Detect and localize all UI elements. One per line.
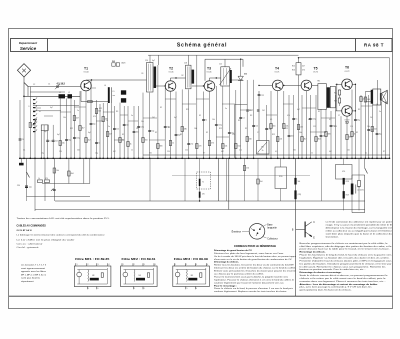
svg-text:5n: 5n xyxy=(131,115,133,117)
svg-text:2k2: 2k2 xyxy=(88,140,91,142)
svg-text:au châssis par le panneau arri: au châssis par le panneau arrière du cof… xyxy=(214,273,264,276)
svg-text:10k: 10k xyxy=(367,126,370,128)
svg-text:Schéma général: Schéma général xyxy=(177,43,227,49)
svg-text:5k6: 5k6 xyxy=(77,150,80,152)
svg-text:MF 1, MF 2, et MF 3. Ils ne: MF 1, MF 2, et MF 3. Ils ne xyxy=(21,273,47,276)
svg-text:C30: C30 xyxy=(17,185,20,187)
svg-text:5n: 5n xyxy=(379,111,381,113)
svg-text:10k: 10k xyxy=(63,117,66,119)
svg-text:5n: 5n xyxy=(136,128,138,130)
svg-text:OC45: OC45 xyxy=(207,72,212,74)
svg-text:680: 680 xyxy=(160,146,163,148)
svg-text:2k2: 2k2 xyxy=(32,125,35,127)
svg-text:5n: 5n xyxy=(33,103,35,105)
svg-text:C21: C21 xyxy=(219,64,222,66)
svg-text:Les transistors T 1, T 2, T 3: Les transistors T 1, T 2, T 3 xyxy=(21,264,47,267)
svg-text:4k7: 4k7 xyxy=(329,151,332,153)
svg-text:S2: S2 xyxy=(181,75,183,77)
svg-text:3k3: 3k3 xyxy=(318,139,321,141)
svg-text:l'opérateur. Pousser le châssi: l'opérateur. Pousser le châssis d'enviro… xyxy=(214,278,295,281)
svg-text:Service: Service xyxy=(20,46,37,51)
svg-text:C7: C7 xyxy=(338,115,340,117)
svg-text:C22: C22 xyxy=(261,95,264,97)
svg-text:0,1: 0,1 xyxy=(365,152,367,154)
svg-text:plus, avec faire passage la co: plus, avec faire passage la commande p. … xyxy=(300,286,372,289)
svg-text:Remontage du châssis.: Remontage du châssis. xyxy=(300,251,326,254)
svg-text:rouge. Il n'y a aucun inconvén: rouge. Il n'y a aucun inconvénient possi… xyxy=(326,223,393,226)
svg-text:soulever légèrement. Replacer: soulever légèrement. Replacer ensuite le… xyxy=(214,290,287,293)
svg-text:sont rigoureusement: sont rigoureusement xyxy=(21,267,45,270)
svg-text:5k6: 5k6 xyxy=(347,150,350,152)
svg-text:Toutes les commutations H.F. o: Toutes les commutations H.F. ont été rep… xyxy=(17,217,111,220)
svg-text:10n: 10n xyxy=(136,132,139,134)
svg-text:Présenter d'abord le haut du c: Présenter d'abord le haut du châssis (to… xyxy=(300,259,392,262)
svg-text:C0: C0 xyxy=(22,139,24,141)
svg-text:125p: 125p xyxy=(76,138,80,140)
svg-text:côté libre supérieur, afin de: côté libre supérieur, afin de dégager de… xyxy=(300,245,393,248)
svg-text:4k7: 4k7 xyxy=(304,139,307,141)
svg-text:4k7: 4k7 xyxy=(109,134,112,136)
svg-text:R12: R12 xyxy=(70,128,73,130)
svg-text:R3: R3 xyxy=(238,120,240,122)
svg-text:1: 1 xyxy=(123,264,124,266)
svg-text:S1: S1 xyxy=(141,73,143,75)
svg-text:Enlever avec précaution les 3: Enlever avec précaution les 3 touches du… xyxy=(214,270,296,273)
svg-text:1n: 1n xyxy=(106,120,108,122)
svg-text:R12: R12 xyxy=(285,128,288,130)
svg-text:22k: 22k xyxy=(62,143,65,145)
svg-text:10µ: 10µ xyxy=(41,152,44,154)
svg-text:Pour le remontage :: Pour le remontage : xyxy=(214,284,237,287)
svg-text:82: 82 xyxy=(122,134,124,136)
svg-text:le côté avant. Remonter le châ: le côté avant. Remonter le châssis sous … xyxy=(300,265,386,268)
svg-text:R3: R3 xyxy=(245,128,247,130)
svg-text:4,5-19,5: 4,5-19,5 xyxy=(57,82,66,85)
svg-text:L2: L2 xyxy=(68,92,70,94)
svg-text:25µ: 25µ xyxy=(268,129,271,131)
svg-text:OA70: OA70 xyxy=(121,62,125,65)
svg-text:10k: 10k xyxy=(56,170,59,172)
svg-text:C18: C18 xyxy=(184,63,187,65)
svg-text:150: 150 xyxy=(145,140,148,142)
svg-text:MF: MF xyxy=(191,275,193,277)
svg-text:T2: T2 xyxy=(169,66,173,70)
svg-text:4k7: 4k7 xyxy=(221,151,224,153)
svg-text:appariés avec les filtres: appariés avec les filtres xyxy=(21,270,46,273)
svg-text:3: 3 xyxy=(98,264,99,266)
svg-text:4: 4 xyxy=(155,264,156,266)
svg-text:10n: 10n xyxy=(126,125,129,127)
svg-text:Basculer progressivement le ch: Basculer progressivement le châssis en m… xyxy=(300,242,389,245)
svg-text:d'une main sur la vis de fixat: d'une main sur la vis de fixation du gra… xyxy=(214,258,292,261)
svg-text:40µ: 40µ xyxy=(357,120,360,122)
svg-text:82: 82 xyxy=(199,115,201,117)
svg-text:Le bobinage Ox (vert) entouran: Le bobinage Ox (vert) entourant des coul… xyxy=(17,234,105,237)
svg-text:C15: C15 xyxy=(350,126,353,128)
svg-text:0,1: 0,1 xyxy=(23,150,25,152)
svg-text:1k: 1k xyxy=(38,178,40,180)
svg-text:4k7: 4k7 xyxy=(113,151,116,153)
svg-text:Démontage du clavier et remont: Démontage du clavier et remontage. xyxy=(300,271,342,274)
svg-text:4p7: 4p7 xyxy=(50,107,53,109)
svg-text:L5: L5 xyxy=(113,91,115,93)
svg-text:Poser le châssis sur le fond,: Poser le châssis sur le fond, le pousser… xyxy=(214,288,293,290)
svg-text:470: 470 xyxy=(45,178,48,180)
svg-text:2: 2 xyxy=(88,264,89,266)
svg-text:C12: C12 xyxy=(185,150,188,152)
svg-text:1: 1 xyxy=(77,264,78,266)
svg-text:50p: 50p xyxy=(151,131,154,133)
svg-text:5n: 5n xyxy=(205,120,207,122)
svg-text:82: 82 xyxy=(356,132,358,134)
svg-text:OC44: OC44 xyxy=(84,72,89,74)
svg-text:R7: R7 xyxy=(383,151,385,153)
svg-text:T4: T4 xyxy=(275,66,279,70)
svg-text:Le fil de connexion du collect: Le fil de connexion du collecteur est re… xyxy=(326,220,393,223)
svg-text:les pattes de fixation. Introd: les pattes de fixation. Introduire progr… xyxy=(300,262,392,265)
svg-text:0,1: 0,1 xyxy=(270,119,272,121)
svg-text:R3: R3 xyxy=(116,111,118,113)
svg-text:5: 5 xyxy=(187,288,188,290)
svg-text:220: 220 xyxy=(167,151,170,153)
svg-text:5n: 5n xyxy=(108,126,110,128)
svg-text:2k2: 2k2 xyxy=(370,117,373,119)
svg-text:C7: C7 xyxy=(257,132,259,134)
svg-text:remonter dans son logement. Pl: remonter dans son logement. Placer à nou… xyxy=(300,280,387,283)
svg-text:4p7: 4p7 xyxy=(174,117,177,119)
svg-text:T5: T5 xyxy=(314,66,318,70)
svg-text:C2: C2 xyxy=(33,84,35,86)
svg-text:10µ: 10µ xyxy=(95,152,98,154)
svg-text:5k6: 5k6 xyxy=(149,152,152,154)
svg-text:5k6: 5k6 xyxy=(249,139,252,141)
svg-text:R16: R16 xyxy=(292,70,295,72)
svg-text:C15: C15 xyxy=(313,126,316,128)
svg-text:5n: 5n xyxy=(225,108,227,110)
svg-text:82: 82 xyxy=(318,111,320,113)
svg-text:470: 470 xyxy=(202,194,205,196)
svg-text:0,1: 0,1 xyxy=(329,119,331,121)
svg-text:6k8: 6k8 xyxy=(71,173,74,175)
svg-text:7k: 7k xyxy=(202,182,204,184)
svg-text:125p: 125p xyxy=(140,127,144,129)
svg-text:Passer le tournevis bien assis: Passer le tournevis bien assis par la bâ… xyxy=(214,275,288,278)
svg-text:poser d'assez haut sur la tabl: poser d'assez haut sur la table pour le … xyxy=(300,248,391,251)
svg-text:4p7: 4p7 xyxy=(88,132,91,134)
svg-text:5n: 5n xyxy=(324,132,326,134)
svg-text:Collecteur: Collecteur xyxy=(267,237,278,240)
svg-text:10k: 10k xyxy=(212,119,215,121)
svg-text:47n: 47n xyxy=(249,110,252,112)
svg-text:680: 680 xyxy=(328,134,331,136)
svg-text:125p: 125p xyxy=(218,125,222,127)
svg-text:150: 150 xyxy=(238,146,241,148)
svg-text:Attention : Lors du démontage: Attention : Lors du démontage et surtout… xyxy=(300,283,378,286)
svg-text:4: 4 xyxy=(207,264,208,266)
svg-text:2: 2 xyxy=(186,264,187,266)
svg-text:L4: L4 xyxy=(104,85,106,87)
svg-text:1: 1 xyxy=(175,264,176,266)
svg-text:OC71: OC71 xyxy=(275,72,280,74)
svg-text:50p: 50p xyxy=(68,140,71,142)
svg-text:OU 16 BT GA 10: OU 16 BT GA 10 xyxy=(17,229,33,232)
svg-text:4p7: 4p7 xyxy=(57,134,60,136)
svg-text:l'agitation. Égaliser sa fixat: l'agitation. Égaliser sa fixation des re… xyxy=(300,257,391,260)
svg-text:10k: 10k xyxy=(225,146,228,148)
svg-text:150: 150 xyxy=(246,168,249,170)
svg-text:CABLES AU COMMANDES: CABLES AU COMMANDES xyxy=(17,224,47,227)
svg-text:Ces as : alternateur: Ces as : alternateur xyxy=(17,242,43,245)
svg-text:3: 3 xyxy=(144,264,145,266)
svg-text:680: 680 xyxy=(184,129,187,131)
svg-text:L1: L1 xyxy=(59,92,61,94)
svg-text:sont bien plus séparés que la: sont bien plus séparés que la base et le… xyxy=(326,233,393,236)
svg-text:470: 470 xyxy=(342,171,345,173)
svg-text:3: 3 xyxy=(196,264,197,266)
svg-text:R12: R12 xyxy=(272,134,275,136)
svg-text:2k2: 2k2 xyxy=(262,110,265,112)
svg-text:OC72: OC72 xyxy=(345,71,350,73)
svg-text:4p7: 4p7 xyxy=(152,60,155,62)
svg-text:4p7: 4p7 xyxy=(44,131,47,133)
svg-text:R12: R12 xyxy=(186,109,189,111)
svg-text:transistor.: transistor. xyxy=(326,236,340,239)
svg-text:82: 82 xyxy=(206,132,208,134)
svg-text:R29: R29 xyxy=(346,195,349,197)
svg-text:680: 680 xyxy=(349,137,352,139)
svg-text:C15: C15 xyxy=(334,126,337,128)
svg-text:1k: 1k xyxy=(172,143,174,145)
svg-text:Base: Base xyxy=(267,224,273,226)
svg-text:470: 470 xyxy=(211,143,214,145)
svg-text:C12: C12 xyxy=(239,150,242,152)
svg-text:0,1: 0,1 xyxy=(242,118,244,120)
svg-text:(1W): (1W) xyxy=(298,194,302,196)
svg-text:reliée au collecteur ou au nég: reliée au collecteur ou au négatif que l… xyxy=(326,230,392,233)
svg-text:R7: R7 xyxy=(203,152,205,154)
svg-text:2k2: 2k2 xyxy=(374,129,377,131)
svg-text:5k6: 5k6 xyxy=(273,126,276,128)
svg-text:10n: 10n xyxy=(255,126,258,128)
svg-text:séparément.: séparément. xyxy=(21,280,34,283)
svg-text:82: 82 xyxy=(39,111,41,113)
svg-text:R28: R28 xyxy=(346,181,349,183)
svg-text:Démontage du grand bouton de C: Démontage du grand bouton de CV. xyxy=(214,249,252,252)
svg-text:2n2: 2n2 xyxy=(116,129,119,131)
svg-text:4: 4 xyxy=(109,264,110,266)
svg-text:470: 470 xyxy=(302,70,305,72)
svg-text:Retirer tous les boutons. Dess: Retirer tous les boutons. Desserrer les … xyxy=(214,264,294,267)
svg-text:2n2: 2n2 xyxy=(55,141,58,143)
svg-text:Ces bl : grisonné: Ces bl : grisonné xyxy=(17,247,40,249)
svg-text:languette: languette xyxy=(267,227,277,230)
svg-text:TR1: TR1 xyxy=(317,81,320,83)
svg-text:0,1: 0,1 xyxy=(257,152,259,154)
svg-text:4k7: 4k7 xyxy=(302,66,305,68)
svg-text:6: 6 xyxy=(196,288,197,290)
svg-text:470: 470 xyxy=(287,115,290,117)
svg-text:R12: R12 xyxy=(99,108,102,110)
svg-text:C1: C1 xyxy=(48,83,50,85)
svg-text:P1: P1 xyxy=(261,147,263,149)
svg-text:5k6: 5k6 xyxy=(293,150,296,152)
svg-text:4k7: 4k7 xyxy=(82,128,85,130)
svg-text:R15: R15 xyxy=(292,66,295,68)
svg-text:R24: R24 xyxy=(334,92,337,94)
svg-text:R3: R3 xyxy=(168,127,170,129)
svg-text:soulever légèrement par l'avan: soulever légèrement par l'avant et l'ame… xyxy=(214,281,284,284)
svg-text:Le 1er chiffre est le plus élo: Le 1er chiffre est le plus éloigné du wa… xyxy=(17,239,76,242)
svg-text:R30: R30 xyxy=(279,176,282,178)
svg-text:R12: R12 xyxy=(219,128,222,130)
svg-text:10k: 10k xyxy=(194,128,197,130)
svg-text:détrompeur à la masse du monta: détrompeur à la masse du montage, car la… xyxy=(326,226,393,229)
svg-text:0,1: 0,1 xyxy=(49,141,51,143)
svg-text:R3: R3 xyxy=(250,115,252,117)
svg-text:2k2: 2k2 xyxy=(152,117,155,119)
svg-text:Dévisser les deux vis arrière: Dévisser les deux vis arrière de fixatio… xyxy=(214,267,296,270)
svg-text:470: 470 xyxy=(199,146,202,148)
svg-text:82: 82 xyxy=(155,132,157,134)
svg-text:1n: 1n xyxy=(77,110,79,112)
svg-text:2k2: 2k2 xyxy=(300,127,303,129)
svg-text:Filtre MF2 : FO 89.31: Filtre MF2 : FO 89.31 xyxy=(122,258,157,261)
svg-text:T6: T6 xyxy=(345,66,349,70)
svg-text:Département: Département xyxy=(19,41,38,45)
svg-text:4p7: 4p7 xyxy=(297,109,300,111)
svg-text:gants (polaires) dans l'échanc: gants (polaires) dans l'échancrure du ch… xyxy=(300,289,352,292)
svg-text:C15: C15 xyxy=(232,134,235,136)
svg-text:10k: 10k xyxy=(141,121,144,123)
svg-text:40µ: 40µ xyxy=(379,134,382,136)
svg-text:OC75: OC75 xyxy=(313,72,318,74)
svg-text:6: 6 xyxy=(144,288,145,290)
svg-text:82: 82 xyxy=(160,107,162,109)
svg-text:5k: 5k xyxy=(262,150,264,152)
svg-text:5n: 5n xyxy=(295,119,297,121)
svg-text:5: 5 xyxy=(88,288,89,290)
svg-text:Dévisser les plots de leur log: Dévisser les plots de leur logement, san… xyxy=(214,252,285,255)
svg-text:C14: C14 xyxy=(145,60,148,62)
svg-text:5: 5 xyxy=(134,288,135,290)
svg-text:5k6: 5k6 xyxy=(260,181,263,183)
svg-text:Filtre MF1 : FO 89.35: Filtre MF1 : FO 89.35 xyxy=(75,258,110,261)
svg-text:T3: T3 xyxy=(207,66,211,70)
svg-text:50p: 50p xyxy=(93,124,96,126)
svg-text:OC45: OC45 xyxy=(169,72,174,74)
svg-text:10k: 10k xyxy=(299,132,302,134)
svg-text:sont pas fournis: sont pas fournis xyxy=(21,277,40,280)
svg-text:1k: 1k xyxy=(130,144,132,146)
svg-text:2n2: 2n2 xyxy=(190,144,193,146)
svg-text:RA 98 T: RA 98 T xyxy=(364,42,384,47)
svg-text:6: 6 xyxy=(98,288,99,290)
svg-text:125p: 125p xyxy=(312,119,316,121)
svg-text:Placer les fournitures le long: Placer les fournitures le long du fond, … xyxy=(300,254,392,257)
svg-text:5k6: 5k6 xyxy=(298,181,301,183)
svg-text:4k7: 4k7 xyxy=(76,118,79,120)
svg-text:470: 470 xyxy=(93,116,96,118)
svg-text:Sortir le châssis comme décrit: Sortir le châssis comme décrit ci-dessus… xyxy=(300,274,389,277)
svg-text:Un fer à souder de 160 W pris: Un fer à souder de 160 W pris dans le ha… xyxy=(214,255,297,258)
svg-text:10n: 10n xyxy=(291,136,294,138)
svg-text:2: 2 xyxy=(134,264,135,266)
svg-text:MF: MF xyxy=(92,275,94,277)
svg-text:Démontage du châssis.: Démontage du châssis. xyxy=(214,261,239,264)
svg-text:R3: R3 xyxy=(180,134,182,136)
svg-text:Filtre MF3 : FO 89.39: Filtre MF3 : FO 89.39 xyxy=(174,258,209,261)
svg-text:osc: osc xyxy=(113,95,116,97)
svg-text:0,1: 0,1 xyxy=(275,151,277,153)
svg-text:22k: 22k xyxy=(279,139,282,141)
svg-text:MF: MF xyxy=(139,275,141,277)
svg-text:470: 470 xyxy=(308,119,311,121)
svg-text:T1: T1 xyxy=(84,66,88,70)
svg-text:R3: R3 xyxy=(358,109,360,111)
svg-text:Émetteur: Émetteur xyxy=(232,231,242,234)
svg-text:220: 220 xyxy=(59,151,62,153)
svg-text:1n: 1n xyxy=(311,152,313,154)
svg-text:1n: 1n xyxy=(131,150,133,152)
svg-text:S: S xyxy=(28,106,29,108)
svg-text:5k6: 5k6 xyxy=(98,111,101,113)
svg-text:châssis et le retirer par le c: châssis et le retirer par le côté avant … xyxy=(300,277,387,280)
svg-text:boutons en position normale. P: boutons en position normale. Pour le cad… xyxy=(300,268,367,271)
